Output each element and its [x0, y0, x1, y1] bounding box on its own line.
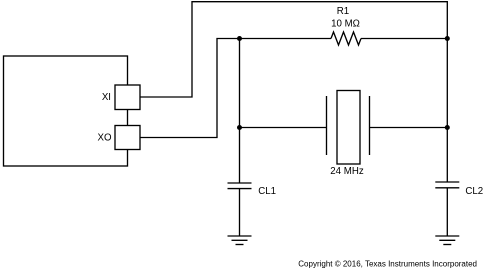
svg-text:XO: XO [98, 133, 112, 144]
svg-text:XI: XI [102, 92, 111, 103]
svg-text:24 MHz: 24 MHz [330, 166, 364, 177]
svg-text:10 MΩ: 10 MΩ [331, 18, 360, 29]
svg-text:R1: R1 [337, 6, 349, 17]
svg-text:Copyright © 2016, Texas Instru: Copyright © 2016, Texas Instruments Inco… [298, 260, 477, 269]
svg-text:CL2: CL2 [465, 186, 483, 197]
svg-text:CL1: CL1 [258, 186, 276, 197]
